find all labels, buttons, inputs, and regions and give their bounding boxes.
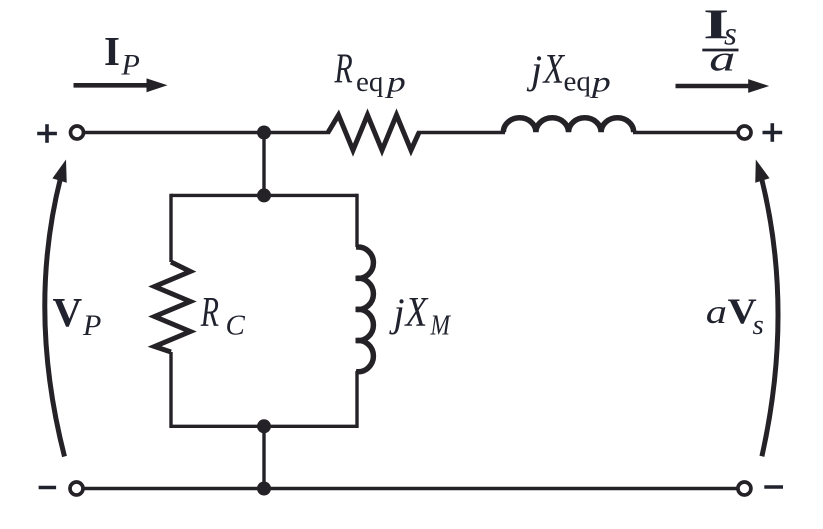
- wire box top: [171, 194, 357, 197]
- svg-text:p: p: [590, 66, 611, 99]
- wire shunt vertical lower: [262, 426, 265, 488]
- junction dot top: [257, 126, 271, 140]
- svg-text:C: C: [226, 310, 246, 342]
- wire top-left segment: [85, 131, 331, 134]
- wire box right upper lead: [355, 194, 358, 247]
- wire shunt vertical upper: [262, 133, 265, 196]
- resistor Req,p (series, top): [328, 115, 419, 150]
- wire inductor to right terminal: [633, 131, 737, 134]
- voltage arrow VP (left, curved): [45, 157, 73, 456]
- svg-text:X: X: [404, 289, 430, 335]
- inductor jXM value label: [389, 289, 452, 340]
- terminal bottom-left: [70, 482, 83, 495]
- current arrow Is/a: [676, 79, 770, 93]
- svg-text:p: p: [385, 66, 406, 99]
- wire box right lower lead: [355, 371, 358, 428]
- svg-text:a: a: [706, 294, 727, 331]
- svg-text:eq: eq: [356, 66, 383, 98]
- svg-text:R: R: [334, 45, 353, 91]
- inductor jXM (shunt, right branch): [356, 247, 374, 372]
- svg-text:V: V: [53, 289, 83, 335]
- inductor jXeq,p value label: [526, 47, 611, 99]
- svg-text:M: M: [430, 309, 452, 341]
- svg-text:X: X: [542, 47, 566, 93]
- plus sign top-left: [37, 124, 57, 143]
- svg-text:s: s: [753, 309, 764, 341]
- wire box bottom: [171, 425, 357, 428]
- inductor jXeq,p (series, top): [503, 118, 633, 133]
- junction dot bottom rail: [257, 482, 271, 496]
- junction dot box bottom: [257, 419, 271, 433]
- terminal top-left: [71, 126, 84, 139]
- voltage arrow aVs (right, curved): [749, 157, 778, 456]
- svg-text:a: a: [709, 38, 735, 78]
- resistor Req,p value label: [334, 45, 406, 98]
- terminal top-right: [738, 126, 751, 139]
- wire between resistor and inductor: [417, 131, 505, 134]
- svg-text:IP: IP: [104, 28, 140, 81]
- wire box left lower lead: [169, 352, 172, 428]
- svg-text:j: j: [389, 290, 405, 335]
- current arrow IP: [74, 78, 168, 92]
- svg-text:P: P: [82, 309, 101, 342]
- svg-text:R: R: [200, 289, 219, 335]
- minus sign bottom-left: [39, 486, 57, 490]
- svg-text:eq: eq: [564, 66, 591, 98]
- resistor RC value label: [200, 289, 246, 341]
- minus sign bottom-right: [764, 485, 783, 489]
- resistor RC (shunt, left branch): [155, 262, 191, 352]
- terminal bottom-right: [738, 482, 751, 495]
- wire box left upper lead: [169, 194, 172, 262]
- svg-text:j: j: [526, 47, 542, 92]
- label Is over a (fraction): [702, 2, 738, 78]
- junction dot box top: [257, 188, 271, 202]
- wire bottom rail: [85, 487, 738, 490]
- plus sign top-right: [763, 123, 783, 142]
